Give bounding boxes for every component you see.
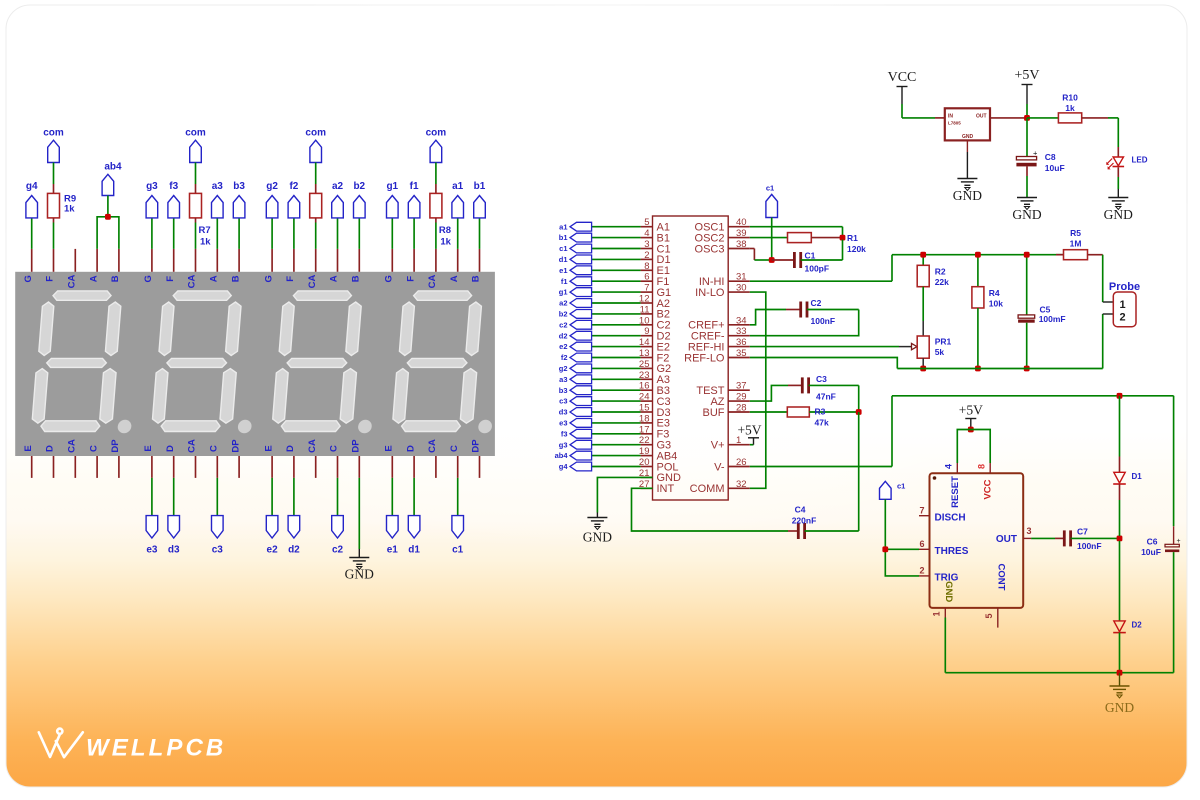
resistor R8 (430, 193, 442, 218)
wire OSC2 to R1 (750, 237, 788, 239)
pin 5 CONT (997, 608, 999, 628)
svg-text:36: 36 (736, 337, 747, 348)
svg-text:CA: CA (307, 439, 318, 453)
ground C8 (1017, 198, 1037, 210)
wire junction to ground (1119, 673, 1121, 686)
svg-text:g3: g3 (146, 181, 158, 192)
IC U2 left pins (639, 217, 681, 495)
wire BUF to R3 (750, 411, 788, 413)
junction c1-OSC3 (769, 257, 775, 263)
svg-text:CA: CA (187, 439, 198, 453)
svg-text:4: 4 (944, 464, 954, 469)
svg-text:1k: 1k (440, 237, 451, 248)
ground regulator (957, 179, 977, 191)
svg-text:OSC3: OSC3 (695, 243, 725, 255)
svg-text:GND: GND (953, 188, 982, 203)
svg-text:100mF: 100mF (1039, 314, 1066, 324)
wire R8 to display CA1 (435, 218, 437, 223)
wire DP2 to ground (358, 478, 360, 549)
svg-text:A: A (329, 275, 340, 282)
svg-text:3: 3 (644, 239, 649, 250)
svg-text:R7: R7 (199, 225, 211, 236)
svg-text:47nF: 47nF (816, 392, 836, 402)
svg-text:a3: a3 (559, 375, 567, 384)
wire junction down to C4 (858, 412, 860, 531)
wire bottom rail (897, 368, 1102, 370)
svg-text:VCC: VCC (983, 479, 994, 499)
svg-text:R3: R3 (815, 406, 826, 416)
junction rail C5 (1024, 252, 1030, 258)
junction c1-THRES (882, 546, 888, 552)
diode D1 (1119, 396, 1121, 457)
svg-text:c1: c1 (897, 482, 905, 491)
svg-text:A: A (209, 275, 220, 282)
svg-text:1: 1 (932, 611, 942, 616)
svg-text:D1: D1 (1132, 472, 1143, 481)
svg-text:DP: DP (230, 439, 241, 453)
svg-text:C2: C2 (811, 298, 822, 308)
card glow (0, 0, 1200, 550)
svg-text:a1: a1 (559, 222, 567, 231)
svg-text:BUF: BUF (703, 407, 725, 419)
terminal b3 (238, 218, 240, 249)
wire OSC3 (750, 248, 755, 250)
svg-text:com: com (305, 127, 326, 138)
svg-text:f1: f1 (561, 277, 568, 286)
svg-text:100nF: 100nF (811, 316, 836, 326)
resistor R4 (977, 255, 979, 287)
wire rail2 to probe pin2 (1102, 314, 1104, 369)
potentiometer PR1 (917, 336, 929, 358)
logo WELLPCB icon (39, 729, 83, 758)
terminal g2 (271, 218, 273, 249)
wire top rail (892, 254, 1064, 256)
svg-text:28: 28 (736, 403, 747, 414)
svg-text:GND: GND (345, 567, 374, 582)
wire IC GND to ground (597, 477, 652, 512)
svg-text:b3: b3 (233, 181, 245, 192)
ground 555 (1110, 686, 1130, 698)
svg-text:+5V: +5V (1014, 68, 1039, 83)
svg-text:INT: INT (657, 483, 675, 495)
junction +5V (1024, 115, 1030, 121)
svg-text:e3: e3 (146, 545, 158, 556)
capacitor C7 (1055, 537, 1064, 539)
display pin letters (23, 275, 482, 453)
svg-text:PR1: PR1 (935, 337, 952, 347)
svg-text:a1: a1 (452, 181, 464, 192)
svg-text:THRES: THRES (935, 546, 969, 557)
svg-text:C7: C7 (1077, 527, 1088, 537)
resistor R7 (190, 193, 202, 218)
wire 555 top rail (892, 395, 1174, 397)
IC U3 555 body (930, 473, 1024, 608)
svg-text:b2: b2 (353, 181, 365, 192)
svg-text:f3: f3 (169, 181, 178, 192)
wire regulator OUT (990, 117, 1027, 119)
probe J1 (1113, 292, 1136, 327)
svg-text:47k: 47k (815, 417, 829, 427)
svg-text:C3: C3 (816, 374, 827, 384)
svg-text:CA: CA (427, 275, 438, 289)
resistor R10 (1058, 113, 1081, 123)
junction rail2 PR1 (920, 366, 926, 372)
svg-text:7: 7 (919, 506, 924, 516)
svg-text:11: 11 (640, 304, 650, 315)
svg-text:10uF: 10uF (1045, 163, 1065, 173)
svg-text:5: 5 (984, 613, 994, 618)
terminal b1 (479, 218, 481, 249)
svg-text:5k: 5k (935, 347, 945, 357)
svg-text:F: F (285, 276, 296, 282)
terminal e2 (271, 478, 273, 516)
svg-text:G: G (263, 275, 274, 282)
svg-text:+5V: +5V (959, 403, 983, 418)
svg-text:1: 1 (1119, 299, 1125, 311)
wire +5V to RESET and VCC (957, 430, 990, 464)
terminal f1 (413, 218, 415, 249)
svg-text:+: + (1033, 148, 1038, 157)
capacitor C4 (798, 523, 804, 539)
svg-text:D2: D2 (1132, 621, 1143, 630)
svg-text:37: 37 (736, 381, 747, 392)
junction rail R4 (975, 252, 981, 258)
capacitor C1 (772, 259, 795, 261)
svg-text:COMM: COMM (690, 483, 725, 495)
svg-text:b1: b1 (474, 181, 486, 192)
svg-text:C: C (449, 445, 460, 452)
svg-text:E: E (143, 445, 154, 451)
svg-text:F: F (165, 276, 176, 282)
svg-text:d2: d2 (559, 331, 568, 340)
IC U2 right pins (684, 217, 750, 495)
svg-text:g3: g3 (559, 440, 568, 449)
svg-text:D: D (165, 445, 176, 452)
svg-text:g2: g2 (559, 364, 568, 373)
svg-text:100pF: 100pF (805, 263, 830, 273)
svg-text:9: 9 (644, 326, 649, 337)
terminal g1 (391, 218, 393, 249)
svg-text:REF-LO: REF-LO (684, 352, 725, 364)
svg-text:V+: V+ (711, 440, 725, 452)
svg-text:10k: 10k (989, 299, 1003, 309)
wire OSC1 (750, 226, 843, 228)
wire R5 to probe pin1 (1102, 255, 1104, 302)
resistor R5 (1056, 254, 1064, 256)
svg-text:1k: 1k (200, 237, 211, 248)
svg-text:OUT: OUT (976, 114, 987, 120)
junction rail R2 (920, 252, 926, 258)
svg-text:2: 2 (919, 566, 924, 576)
svg-text:a2: a2 (559, 299, 567, 308)
terminal b2 (358, 218, 360, 249)
svg-text:C: C (209, 445, 220, 452)
terminal a3 (216, 218, 218, 249)
capacitor C3 (788, 384, 802, 386)
svg-text:D: D (285, 445, 296, 452)
pin 6 THRES (919, 548, 930, 550)
svg-text:B: B (351, 275, 362, 282)
svg-text:A: A (449, 275, 460, 282)
svg-text:GND: GND (1012, 207, 1041, 222)
svg-text:R2: R2 (935, 267, 946, 277)
wire R6 to display CA2 (315, 218, 317, 223)
svg-text:6: 6 (644, 272, 649, 283)
terminal c3 (216, 478, 218, 516)
svg-text:VCC: VCC (888, 70, 917, 85)
svg-text:e2: e2 (267, 545, 279, 556)
svg-text:b2: b2 (559, 310, 568, 319)
svg-text:+: + (1177, 538, 1181, 545)
svg-text:e3: e3 (559, 419, 567, 428)
wire LED to ground (1117, 167, 1119, 177)
svg-text:CA: CA (67, 275, 78, 289)
wire c1 down (771, 218, 773, 261)
wire REF-LO (750, 358, 898, 369)
svg-text:V-: V- (714, 461, 725, 473)
svg-text:com: com (426, 127, 447, 138)
svg-text:c1: c1 (766, 183, 774, 192)
svg-text:c3: c3 (212, 545, 224, 556)
power +5V at V+ (750, 444, 754, 446)
svg-text:c3: c3 (559, 397, 567, 406)
svg-text:g1: g1 (559, 288, 568, 297)
svg-text:g1: g1 (386, 181, 398, 192)
svg-text:8: 8 (644, 261, 649, 272)
svg-text:CA: CA (427, 439, 438, 453)
capacitor C2 (786, 309, 800, 311)
svg-text:34: 34 (736, 315, 747, 326)
svg-text:A: A (88, 275, 99, 282)
svg-text:C6: C6 (1147, 537, 1158, 547)
svg-text:e2: e2 (559, 342, 567, 351)
terminal e1 (391, 478, 393, 516)
pin 3 OUT (1023, 537, 1031, 539)
svg-text:DISCH: DISCH (935, 513, 966, 524)
svg-text:DP: DP (351, 439, 362, 453)
ground display (349, 558, 369, 570)
terminal e3 (151, 478, 153, 516)
svg-text:com: com (43, 127, 64, 138)
svg-text:38: 38 (736, 239, 747, 250)
terminal a1 (457, 218, 459, 249)
svg-text:GND: GND (583, 530, 612, 545)
svg-text:CA: CA (187, 275, 198, 289)
svg-text:g2: g2 (266, 181, 278, 192)
junction rail2 R4 (975, 366, 981, 372)
svg-text:6: 6 (919, 539, 924, 549)
svg-text:G: G (384, 275, 395, 282)
svg-text:ab4: ab4 (555, 451, 569, 460)
7-segment digit 4 (31, 291, 142, 433)
led LED (1113, 157, 1123, 166)
capacitor C5 (1026, 255, 1028, 315)
svg-text:f2: f2 (561, 353, 568, 362)
svg-text:1k: 1k (64, 204, 75, 215)
junction rail3 D1 (1117, 393, 1123, 399)
wire CREF+ (750, 310, 786, 325)
display pin stubs (32, 249, 480, 478)
junction R1 right (840, 235, 846, 241)
svg-text:d1: d1 (559, 255, 568, 264)
wire R9 to display F (53, 218, 55, 223)
svg-text:C: C (88, 445, 99, 452)
svg-text:com: com (185, 127, 206, 138)
ground LED (1108, 198, 1128, 210)
svg-text:e1: e1 (559, 266, 567, 275)
terminal g4 (31, 218, 33, 249)
svg-text:7: 7 (644, 283, 649, 294)
svg-text:39: 39 (736, 228, 747, 239)
svg-text:32: 32 (736, 479, 747, 490)
wire IN-LO to COMM (750, 292, 766, 488)
svg-text:f3: f3 (561, 429, 568, 438)
svg-text:d3: d3 (168, 545, 180, 556)
svg-text:100nF: 100nF (1077, 541, 1102, 551)
svg-text:D: D (45, 445, 56, 452)
svg-text:30: 30 (736, 283, 747, 294)
terminal f2 (293, 218, 295, 249)
pin 2 TRIG (919, 575, 930, 577)
svg-text:DP: DP (110, 439, 121, 453)
svg-text:OUT: OUT (996, 534, 1017, 545)
svg-text:ab4: ab4 (104, 162, 122, 173)
svg-text:c2: c2 (559, 320, 567, 329)
IC U2 body (653, 216, 729, 500)
svg-text:+5V: +5V (737, 423, 761, 438)
svg-text:E: E (23, 445, 34, 451)
7-segment digit 1 (392, 291, 503, 433)
svg-text:C: C (329, 445, 340, 452)
wire AZ to C3 (750, 385, 788, 401)
svg-text:4: 4 (644, 228, 649, 239)
svg-text:a2: a2 (332, 181, 344, 192)
svg-text:c2: c2 (332, 545, 344, 556)
svg-text:1k: 1k (1065, 103, 1075, 113)
terminal c1 555 (880, 481, 892, 499)
svg-text:5: 5 (644, 217, 649, 228)
regulator U1 7805 (945, 108, 990, 140)
svg-text:26: 26 (736, 457, 747, 468)
svg-text:40: 40 (736, 217, 747, 228)
svg-text:R1: R1 (847, 233, 858, 243)
terminal c1 osc (766, 194, 778, 217)
terminal c2 (337, 478, 339, 516)
resistor R2 (922, 255, 924, 266)
terminal d1 (413, 478, 415, 516)
svg-text:d2: d2 (288, 545, 300, 556)
wire R7 to display CA3 (195, 218, 197, 223)
svg-text:22k: 22k (935, 277, 949, 287)
svg-text:29: 29 (736, 392, 747, 403)
junction bottom rail (1117, 670, 1123, 676)
svg-text:220nF: 220nF (792, 516, 817, 526)
svg-text:IN-LO: IN-LO (695, 287, 725, 299)
resistor R9 (48, 193, 60, 218)
terminal f3 (173, 218, 175, 249)
wire 555 bottom rail (944, 618, 946, 673)
pin 7 DISCH (919, 515, 930, 517)
wire PR1 to bottom rail (922, 358, 924, 366)
wire regulator GND (966, 140, 968, 152)
terminals a1-g4 to IC (555, 222, 641, 471)
svg-text:DP: DP (471, 439, 482, 453)
svg-text:B: B (471, 275, 482, 282)
svg-text:C1: C1 (805, 250, 816, 260)
svg-text:c1: c1 (559, 244, 567, 253)
svg-text:RESET: RESET (950, 476, 961, 508)
svg-text:GND: GND (1104, 207, 1133, 222)
wire IN-HI (750, 280, 892, 282)
svg-text:C8: C8 (1045, 152, 1056, 162)
svg-text:b1: b1 (559, 233, 568, 242)
7-segment display body (15, 272, 495, 456)
wire C2 to CREF- (750, 310, 859, 336)
svg-text:B: B (110, 275, 121, 282)
svg-text:R4: R4 (989, 288, 1000, 298)
diode D2 (1119, 541, 1121, 621)
resistor R6 (310, 193, 322, 218)
svg-text:a3: a3 (212, 181, 224, 192)
svg-text:f2: f2 (289, 181, 298, 192)
svg-text:CONT: CONT (996, 564, 1007, 591)
svg-text:d3: d3 (559, 408, 568, 417)
terminal d3 (173, 478, 175, 516)
junction rail2 C5 (1024, 366, 1030, 372)
terminal c1 (457, 478, 459, 516)
wire OUT to C7 (1031, 537, 1055, 539)
svg-text:G: G (23, 275, 34, 282)
wire R2 to PR1 (922, 287, 924, 321)
svg-text:L7805: L7805 (948, 121, 961, 126)
7-segment digit 3 (151, 291, 262, 433)
capacitor C6 (1173, 396, 1175, 527)
wire V- (750, 466, 892, 468)
svg-text:WELLPCB: WELLPCB (86, 735, 226, 762)
svg-text:d1: d1 (408, 545, 420, 556)
svg-text:2: 2 (1119, 312, 1125, 324)
svg-text:C4: C4 (795, 505, 806, 515)
svg-text:e1: e1 (387, 545, 399, 556)
resistor R3 (787, 407, 809, 417)
junction R3-C3 (856, 409, 862, 415)
wire IN-HI riser (891, 255, 893, 282)
svg-text:R5: R5 (1070, 228, 1081, 238)
svg-text:R10: R10 (1062, 92, 1078, 102)
svg-text:B: B (230, 275, 241, 282)
wire C3 to R3 junction (858, 385, 860, 412)
wire R10 to LED (1082, 117, 1108, 119)
svg-text:G: G (143, 275, 154, 282)
junction +5V 555 (968, 427, 974, 433)
wire REF-HI to PR1 wiper (750, 346, 899, 348)
svg-text:f1: f1 (410, 181, 419, 192)
svg-text:Probe: Probe (1109, 281, 1140, 293)
svg-text:g4: g4 (26, 181, 38, 192)
svg-text:R8: R8 (439, 225, 451, 236)
junction OUT-D1 (1117, 536, 1123, 542)
wire C8 to ground (1026, 166, 1028, 176)
svg-text:GND: GND (943, 581, 954, 602)
svg-text:c1: c1 (452, 545, 464, 556)
svg-text:CA: CA (307, 275, 318, 289)
svg-text:GND: GND (962, 134, 974, 140)
capacitor C8 (1026, 118, 1028, 157)
svg-text:3: 3 (1027, 526, 1032, 536)
svg-text:GND: GND (1105, 700, 1134, 715)
terminal g3 (151, 218, 153, 249)
pin 1 GND 555 (944, 608, 946, 618)
